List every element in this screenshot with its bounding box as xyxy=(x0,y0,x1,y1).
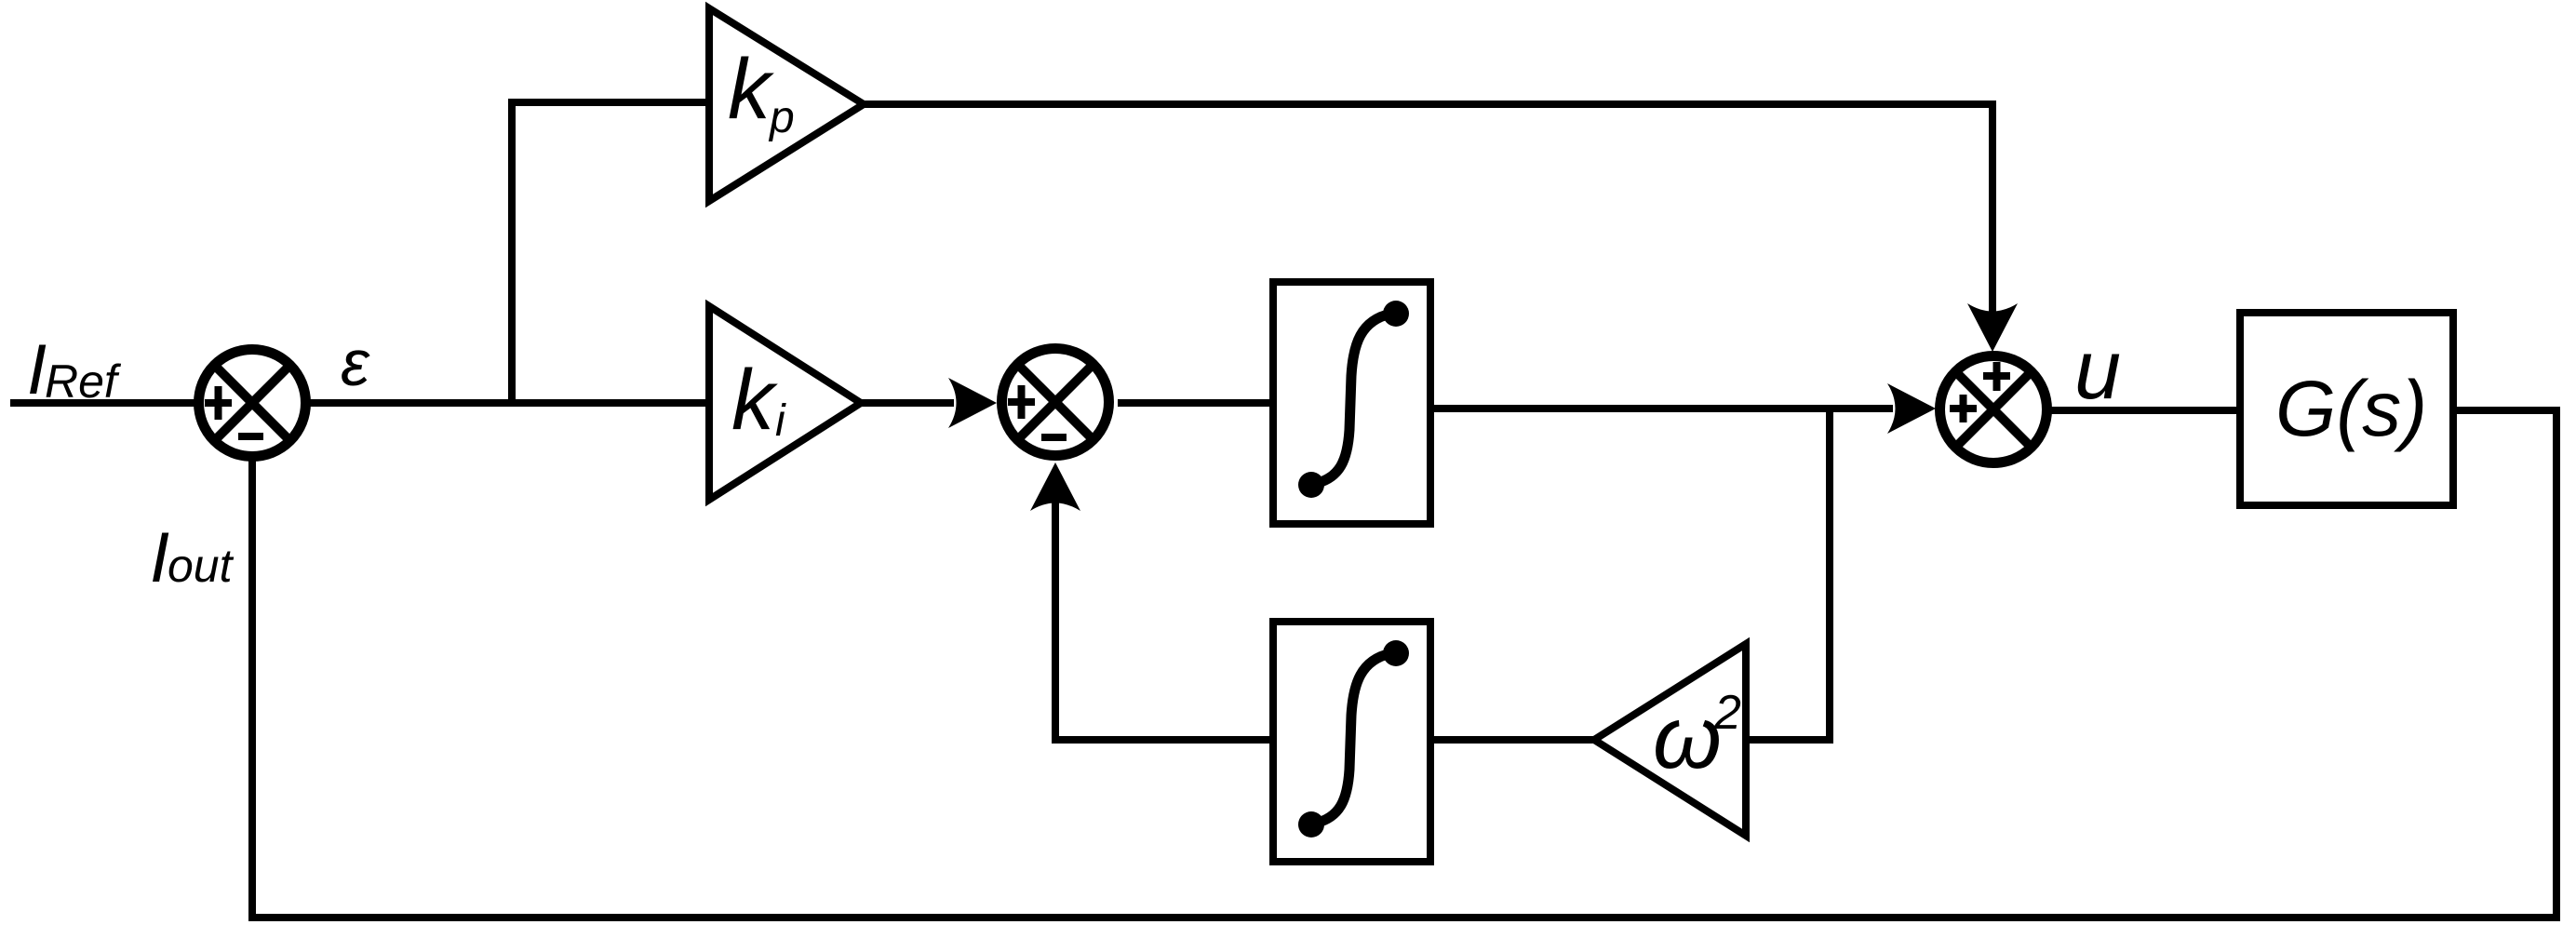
svg-text:I: I xyxy=(27,330,47,409)
svg-text:i: i xyxy=(775,396,786,446)
svg-text:I: I xyxy=(150,518,169,597)
svg-text:k: k xyxy=(731,353,778,448)
svg-text:ε: ε xyxy=(341,327,370,399)
svg-text:ω: ω xyxy=(1653,689,1722,787)
svg-text:u: u xyxy=(2074,324,2121,417)
svg-text:2: 2 xyxy=(1713,686,1741,740)
svg-text:k: k xyxy=(728,42,774,137)
svg-text:p: p xyxy=(768,93,795,142)
svg-text:G(s): G(s) xyxy=(2275,365,2427,452)
svg-text:out: out xyxy=(168,540,235,592)
svg-text:Ref: Ref xyxy=(45,355,122,408)
